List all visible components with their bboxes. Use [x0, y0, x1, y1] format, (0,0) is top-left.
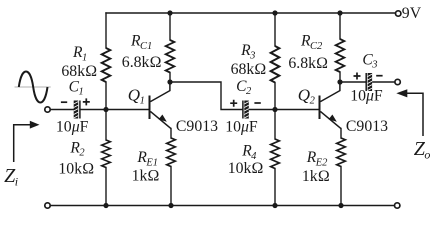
svg-text:10μF: 10μF [56, 119, 89, 136]
svg-text:C9013: C9013 [346, 118, 388, 135]
svg-text:9V: 9V [402, 5, 422, 22]
svg-text:1kΩ: 1kΩ [132, 168, 160, 185]
svg-text:10μF: 10μF [350, 87, 383, 104]
svg-text:6.8kΩ: 6.8kΩ [122, 54, 162, 71]
svg-text:10kΩ: 10kΩ [58, 161, 94, 178]
svg-text:10μF: 10μF [225, 118, 258, 135]
svg-text:68kΩ: 68kΩ [61, 63, 97, 80]
svg-text:C9013: C9013 [176, 118, 218, 135]
svg-text:1kΩ: 1kΩ [302, 168, 330, 185]
svg-text:68kΩ: 68kΩ [231, 61, 267, 78]
svg-text:6.8kΩ: 6.8kΩ [288, 55, 328, 72]
svg-text:10kΩ: 10kΩ [228, 160, 264, 177]
